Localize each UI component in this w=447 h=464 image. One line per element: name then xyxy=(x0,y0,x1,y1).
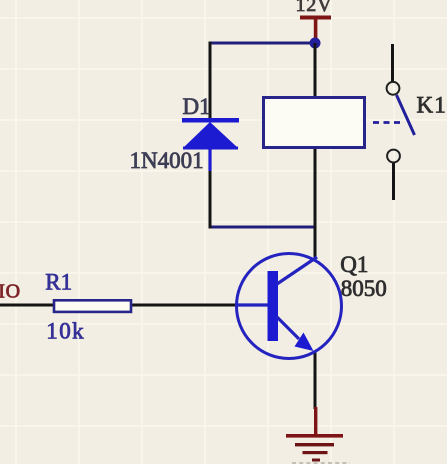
svg-text:K1: K1 xyxy=(417,93,447,118)
svg-text:R1: R1 xyxy=(45,270,72,295)
svg-text:1N4001: 1N4001 xyxy=(130,148,204,173)
svg-text:12V: 12V xyxy=(296,0,333,16)
svg-text:IO: IO xyxy=(0,281,21,303)
svg-text:D1: D1 xyxy=(183,94,211,119)
svg-text:Q1: Q1 xyxy=(340,252,368,277)
svg-text:8050: 8050 xyxy=(341,276,387,301)
svg-text:10k: 10k xyxy=(46,319,85,344)
